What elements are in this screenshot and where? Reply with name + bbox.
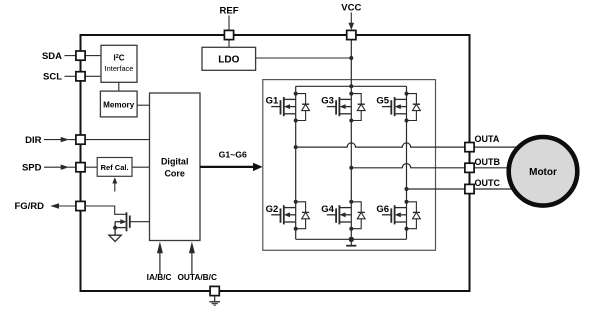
junction LDO/VCC (349, 56, 353, 60)
wire FG/RD to transistor Q1 drain (85, 206, 127, 214)
G5 body arrow (395, 104, 401, 109)
pin FG/RD (76, 201, 85, 210)
svg-text:LDO: LDO (218, 54, 239, 65)
ground (open triangle) at Q1 source (109, 235, 121, 241)
block U2: Memory (100, 91, 137, 117)
svg-text:OUTB: OUTB (475, 157, 501, 167)
body diode of G6 (407, 202, 421, 229)
svg-text:G2: G2 (266, 204, 279, 215)
ground at GND pin (214, 296, 216, 302)
svg-text:SCL: SCL (43, 72, 62, 83)
body diode of G4 (351, 202, 365, 229)
pin REF (224, 30, 233, 39)
body diode of G2 (296, 202, 310, 229)
G6 body arrow (395, 212, 401, 217)
svg-text:VCC: VCC (341, 3, 361, 14)
junction Q1 source/body (113, 226, 117, 230)
svg-text:SPD: SPD (22, 162, 42, 173)
pin GND (210, 286, 219, 295)
junction dots on G4 drain/source (349, 200, 353, 231)
G4 body arrow (339, 212, 345, 217)
svg-text:OUTA: OUTA (475, 134, 500, 144)
wire column 3 vertical (G5/G6) (406, 86, 408, 239)
wire OUTA/B/C feedback arrow (191, 252, 193, 274)
wire phase B rail with hop (351, 164, 465, 168)
wire SCL lead (65, 75, 77, 77)
G3 body arrow (339, 104, 345, 109)
svg-text:I2C: I2C (113, 54, 124, 63)
power bridge boundary box (263, 80, 436, 251)
wire SPD lead with input arrow (44, 166, 61, 168)
Q1 body arrow (120, 219, 126, 224)
wire VCC lead with input arrow (350, 13, 352, 24)
junction dots on G2 drain/source (294, 200, 298, 231)
pin SDA (76, 51, 85, 60)
wire top drain rail (296, 85, 407, 87)
junction bottom rail / ground tap (349, 237, 354, 242)
svg-text:IA/B/C: IA/B/C (147, 272, 172, 282)
transistor G1 (NMOS) (271, 97, 296, 116)
svg-text:Motor: Motor (529, 167, 557, 178)
wire bottom source rail (296, 238, 407, 240)
pin VCC (347, 30, 356, 39)
junction dots on G1 drain/source (294, 92, 298, 123)
wire Ref Cal to Digital Core (132, 166, 150, 168)
svg-text:G4: G4 (321, 204, 334, 215)
body diode of G3 (351, 94, 365, 121)
wire I2C to Memory (118, 82, 120, 91)
wire REF lead (228, 16, 230, 31)
wire OUTB to motor (474, 167, 511, 169)
transistor G2 (NMOS) (271, 205, 296, 224)
wire VCC rail vertical (column 2) (350, 39, 352, 239)
pin OUTB (465, 163, 474, 172)
wire phase A rail with hops (296, 143, 465, 147)
block U3: Digital Core (150, 93, 201, 241)
wire phase C rail (407, 188, 466, 190)
wire OUTC to motor (474, 188, 519, 190)
svg-text:SDA: SDA (42, 51, 62, 62)
pin SPD (76, 163, 85, 172)
pin DIR (76, 135, 85, 144)
body diode of G1 (296, 94, 310, 121)
wire G1~G6 bus arrow (Digital Core to bridge) (200, 166, 253, 168)
wire REF pin to LDO (228, 39, 230, 47)
wire Memory to Digital Core (137, 104, 149, 106)
svg-text:OUTC: OUTC (475, 178, 501, 188)
junction dots on G6 drain/source (405, 200, 409, 231)
junction dots on G5 drain/source (405, 92, 409, 123)
transistor G5 (NMOS) (382, 97, 407, 116)
wire column 1 vertical (G1/G2) (295, 86, 297, 239)
svg-text:G5: G5 (376, 96, 389, 107)
wire SDA pin to I2C block (85, 55, 101, 57)
G1 body arrow (284, 104, 290, 109)
wire DIR lead with input arrow (44, 139, 61, 141)
junction dots on G3 drain/source (349, 92, 353, 123)
transistor G6 (NMOS) (382, 205, 407, 224)
pin SCL (76, 72, 85, 81)
svg-text:Core: Core (164, 169, 185, 179)
junction phase C / column 3 (405, 187, 409, 191)
svg-text:FG/RD: FG/RD (14, 201, 44, 212)
svg-text:G1: G1 (266, 96, 279, 107)
wire OUTA to motor (474, 146, 519, 148)
junction phase B / column 2 (349, 166, 353, 170)
svg-text:REF: REF (220, 6, 239, 17)
svg-text:DIR: DIR (25, 135, 42, 146)
junction phase A / column 1 (294, 145, 298, 149)
wire FG/RD lead with output arrow (50, 203, 59, 208)
transistor G4 (NMOS) (327, 205, 352, 224)
svg-text:G1~G6: G1~G6 (219, 150, 247, 160)
pin OUTC (465, 184, 474, 193)
wire DIR to Digital Core (85, 139, 150, 141)
transistor Q1 (FG open-drain NMOS) (115, 212, 149, 235)
block U1: I2C Interface (101, 45, 137, 82)
svg-text:Memory: Memory (103, 100, 135, 109)
body diode of G5 (407, 94, 421, 121)
svg-text:G6: G6 (376, 204, 389, 215)
transistor G3 (NMOS) (327, 97, 352, 116)
wire arrow into Ref Cal bottom (114, 183, 116, 192)
svg-text:Ref Cal.: Ref Cal. (101, 163, 129, 172)
block U4: LDO (202, 47, 256, 70)
wire LDO output to VCC rail (256, 57, 352, 59)
wire SCL pin to I2C block (85, 75, 101, 77)
outer IC boundary box (81, 35, 470, 291)
svg-text:Digital: Digital (161, 157, 189, 167)
svg-text:Interface: Interface (105, 64, 134, 73)
junction VCC/top rail (349, 84, 353, 88)
block U5: Ref Cal (97, 158, 132, 177)
ground of bridge (350, 239, 352, 245)
motor M1 (509, 137, 578, 206)
svg-text:G3: G3 (321, 96, 334, 107)
wire SDA lead (65, 55, 77, 57)
pin OUTA (465, 143, 474, 152)
wire SPD to Ref Cal (85, 166, 97, 168)
svg-text:OUTA/B/C: OUTA/B/C (177, 272, 216, 282)
wire IA/B/C feedback arrow (159, 252, 161, 274)
G2 body arrow (284, 212, 290, 217)
